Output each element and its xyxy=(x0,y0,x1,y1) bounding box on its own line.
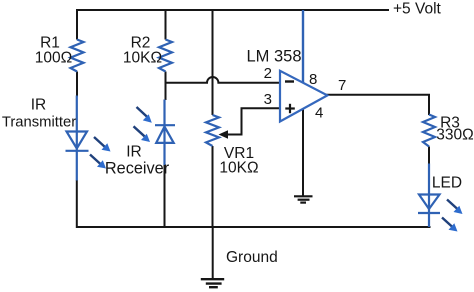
label Ground xyxy=(226,249,278,266)
label R1 value 100ohm xyxy=(35,50,72,67)
label LM 358 xyxy=(246,48,301,66)
wire from R2 node to pin 2 with hop over VR1 column xyxy=(166,77,282,83)
label IR Transmitter xyxy=(2,97,76,131)
IR receiver incoming arrow 1 xyxy=(137,107,152,123)
wire top +5V rail xyxy=(77,9,389,11)
pin 3 label xyxy=(264,91,272,108)
pin 8 label xyxy=(309,71,317,88)
svg-text:10KΩ: 10KΩ xyxy=(123,50,162,67)
svg-text:8: 8 xyxy=(309,71,317,88)
wire V+ (pin 8) blue from rail into op-amp xyxy=(302,10,304,84)
ground (main) xyxy=(201,279,224,287)
IR transmitter emission arrow 2 xyxy=(90,155,106,169)
resistor R1 xyxy=(71,40,84,72)
svg-text:7: 7 xyxy=(338,77,346,94)
wire op-amp output pin 7 to R3 xyxy=(326,95,429,115)
label +5 Volt xyxy=(393,1,442,18)
pin 2 label xyxy=(264,65,272,82)
svg-text:3: 3 xyxy=(264,91,272,108)
svg-text:330Ω: 330Ω xyxy=(436,127,473,144)
svg-text:IR: IR xyxy=(126,144,142,161)
svg-text:Ground: Ground xyxy=(226,249,278,266)
pin 4 label xyxy=(315,105,323,122)
wire left column (R1 / IR transmitter branch) xyxy=(76,9,78,228)
LED emission arrow 2 xyxy=(442,218,458,232)
label R2 value 10Kohm xyxy=(123,50,162,67)
IR transmitter emission arrow 1 xyxy=(94,137,111,152)
label IR Receiver xyxy=(105,144,170,178)
wire VR1 column xyxy=(212,9,214,227)
LED emission arrow 1 xyxy=(447,200,463,215)
label R3 xyxy=(440,115,460,132)
wire pin 4 to ground xyxy=(302,108,304,196)
potentiometer VR1 xyxy=(206,115,219,146)
svg-text:2: 2 xyxy=(264,65,272,82)
ground (op-amp pin 4) xyxy=(294,196,313,202)
op-amp non-inverting input plus sign xyxy=(285,104,295,113)
svg-text:4: 4 xyxy=(315,105,323,122)
label R2 xyxy=(131,35,151,52)
wire main ground stem xyxy=(212,227,214,279)
wire R2 / IR receiver column xyxy=(165,9,166,228)
resistor R3 xyxy=(423,115,435,147)
label R3 value 330ohm xyxy=(436,127,473,144)
resistor R2 xyxy=(159,40,172,72)
svg-text:LM 358: LM 358 xyxy=(246,48,301,66)
svg-text:Transmitter: Transmitter xyxy=(2,115,76,131)
svg-text:+5 Volt: +5 Volt xyxy=(393,1,442,18)
wire bottom ground rail xyxy=(77,226,431,228)
svg-text:10KΩ: 10KΩ xyxy=(219,160,258,177)
op-amp inverting input minus sign xyxy=(285,80,294,82)
svg-text:100Ω: 100Ω xyxy=(35,50,72,67)
wire R3 to LED xyxy=(428,147,430,165)
svg-text:LED: LED xyxy=(432,175,462,192)
wire pin 3 to VR1 wiper xyxy=(225,108,281,134)
pin 7 label xyxy=(338,77,346,94)
label LED xyxy=(432,175,462,192)
IR receiver photodiode (blue wire + diode symbol) xyxy=(155,100,175,166)
LED D1 (output indicator, blue wire + diode symbol) xyxy=(418,164,440,228)
wiper arrowhead into VR1 xyxy=(219,130,229,139)
label R1 xyxy=(40,35,60,52)
label VR1 xyxy=(224,145,254,162)
label VR1 value 10Kohm xyxy=(219,160,258,177)
IR transmitter LED (blue wire + diode symbol) xyxy=(66,96,89,181)
svg-text:IR: IR xyxy=(31,97,47,114)
op-amp U1 LM358 triangle xyxy=(280,71,327,122)
IR receiver incoming arrow 2 xyxy=(134,126,151,142)
svg-text:Receiver: Receiver xyxy=(105,160,170,178)
